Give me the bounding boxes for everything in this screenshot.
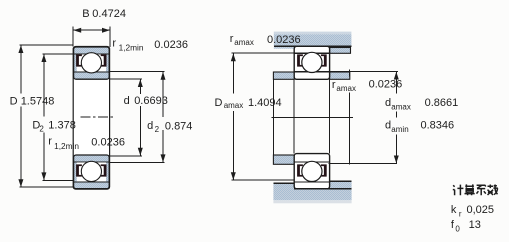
svg-text:amax: amax (224, 101, 244, 110)
计 (453, 185, 464, 196)
svg-text:amin: amin (391, 125, 408, 134)
算 (465, 184, 475, 195)
housing top shadow strip (274, 32, 352, 35)
dimension D2: dimension line (broken by label) (43, 54, 45, 117)
dimension D: extension lines (19, 44, 73, 46)
right bottom section right seal (321, 164, 327, 176)
svg-text:D: D (10, 95, 18, 107)
svg-text:1.378: 1.378 (48, 120, 76, 132)
svg-text:r: r (230, 33, 234, 45)
svg-text:13: 13 (469, 219, 481, 231)
right top section (white) (294, 46, 329, 79)
dimension d2: dimension line (broken by label) (162, 72, 164, 117)
dimension damax/damin: extension lines (329, 71, 398, 73)
dimension Damax: dimension line (broken by label) (232, 53, 234, 93)
shaft left face line (272, 72, 274, 164)
svg-text:0.8346: 0.8346 (421, 120, 455, 132)
svg-text:r: r (112, 38, 116, 50)
right bearing bore lines (293, 79, 295, 153)
right bottom section (white) (294, 154, 329, 189)
dimension Damax: extension lines (232, 52, 295, 54)
svg-text:amax: amax (336, 84, 356, 93)
svg-text:r: r (459, 210, 462, 219)
top section (upper ring cross-section, blue) (74, 47, 110, 79)
housing top band (274, 34, 352, 46)
svg-text:2: 2 (39, 125, 44, 134)
damin extension line (vertical, broken by label) (349, 69, 351, 76)
right bottom section ball (302, 161, 322, 181)
dimension d: dimension line (broken by label) (139, 79, 141, 94)
svg-text:2: 2 (155, 125, 160, 134)
svg-text:amax: amax (234, 38, 254, 47)
svg-text:0.0236: 0.0236 (91, 136, 125, 148)
bottom section right seal (101, 164, 107, 176)
dimension B: extension lines (72, 27, 74, 47)
svg-text:B: B (82, 8, 89, 20)
bottom housing shadow strip (273, 200, 351, 203)
bottom section ball (81, 161, 101, 181)
dimension D: dimension line (broken by label) (20, 45, 22, 94)
top section right seal (101, 54, 107, 66)
svg-text:0,025: 0,025 (467, 204, 495, 216)
svg-text:r: r (48, 136, 52, 148)
right bottom section left seal (297, 164, 303, 176)
bearing body outline (bore tube) (73, 47, 109, 190)
svg-text:D: D (215, 97, 223, 109)
svg-text:d: d (385, 97, 391, 109)
svg-text:0.4724: 0.4724 (92, 8, 126, 20)
damax dimension line (broken by labels) (395, 72, 397, 94)
svg-text:1,2min: 1,2min (119, 43, 144, 53)
svg-text:d: d (385, 120, 391, 132)
系 (477, 185, 486, 195)
svg-text:amax: amax (391, 102, 411, 111)
svg-text:0.0236: 0.0236 (369, 79, 403, 91)
svg-text:0: 0 (455, 225, 460, 234)
centerline (272, 116, 354, 118)
right top section right seal (321, 54, 327, 66)
svg-text:0.8661: 0.8661 (425, 97, 459, 109)
label 计算系数 (calculation factors, bold CJK) (453, 184, 498, 195)
bottom section left seal (76, 164, 82, 176)
right top section left seal (297, 54, 303, 66)
dimension d: extension lines (110, 78, 142, 80)
bottom housing block (273, 181, 351, 200)
dimension D2: extension lines (42, 53, 73, 55)
shaft shoulder top-left (273, 72, 294, 79)
svg-text:1,2min: 1,2min (54, 141, 79, 151)
shaft shoulder top-right (330, 72, 350, 79)
svg-text:0.0236: 0.0236 (267, 34, 301, 46)
bottom housing outline edges (273, 182, 294, 184)
bottom section (lower ring cross-section, blue) (74, 155, 110, 189)
top section ball (81, 53, 101, 73)
svg-text:r: r (332, 79, 336, 91)
svg-text:k: k (451, 204, 457, 216)
shaft shoulder bottom-left (273, 155, 294, 164)
数 (488, 185, 498, 195)
svg-text:d: d (124, 95, 130, 107)
dimension d2: extension lines (110, 71, 165, 73)
svg-text:0.874: 0.874 (165, 121, 193, 133)
right top section ball (302, 52, 322, 72)
svg-text:0.0236: 0.0236 (154, 39, 188, 51)
left figure centerline (81, 116, 114, 118)
housing top shoulder (330, 48, 351, 54)
dimension B: dimension line with arrows (73, 29, 110, 31)
top section left seal (76, 54, 82, 66)
svg-text:d: d (147, 120, 153, 132)
svg-text:1.5748: 1.5748 (21, 95, 55, 107)
svg-text:1.4094: 1.4094 (248, 97, 282, 109)
